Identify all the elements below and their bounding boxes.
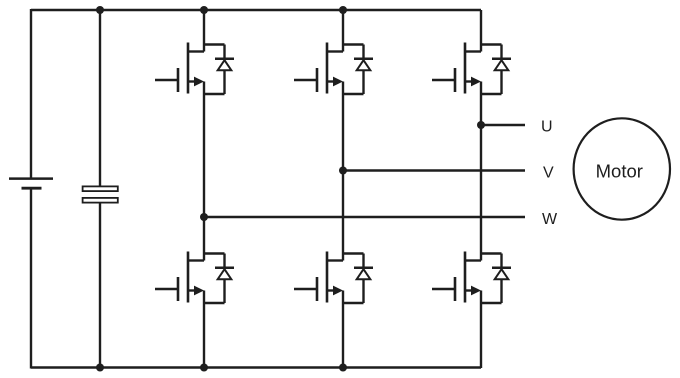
- diode D6 (freewheeling): [481, 254, 511, 304]
- diode D4 (freewheeling): [204, 254, 234, 304]
- wire: phase node W to lower drain: [203, 217, 205, 261]
- wire: phase V output: [343, 169, 525, 171]
- diode D5 (freewheeling): [343, 254, 373, 304]
- wire: leg 2 upper source to phase node V: [342, 94, 344, 171]
- motor M1: [574, 118, 670, 219]
- transistor Q4 (N-MOSFET): [155, 252, 204, 304]
- transistor Q2 (N-MOSFET): [294, 43, 343, 95]
- junction: capacitor / top rail: [96, 6, 104, 14]
- junction: leg 2 / top rail: [339, 6, 347, 14]
- diode D3 (freewheeling): [481, 45, 511, 95]
- transistor Q5 (N-MOSFET): [294, 252, 343, 304]
- junction: phase node V: [339, 167, 347, 175]
- svg-text:U: U: [541, 119, 553, 136]
- junction: leg 1 / top rail: [200, 6, 208, 14]
- diode D1 (freewheeling): [204, 45, 234, 95]
- junction: capacitor / bottom rail: [96, 364, 104, 372]
- wire: phase U output: [481, 124, 525, 126]
- wire: leg 2 lower source to bottom rail: [342, 303, 344, 368]
- transistor Q6 (N-MOSFET): [432, 252, 481, 304]
- svg-text:V: V: [543, 164, 554, 181]
- transistor Q1 (N-MOSFET): [155, 43, 204, 95]
- diode D2 (freewheeling): [343, 45, 373, 95]
- label U: [541, 119, 553, 136]
- junction: phase node W: [200, 213, 208, 221]
- wire: leg 2 drain (upper): [342, 10, 344, 52]
- wire: phase node V to lower drain: [342, 171, 344, 261]
- junction: leg 1 / bottom rail: [200, 364, 208, 372]
- wire: leg 1 upper source to phase node W: [203, 94, 205, 217]
- wire top rail (DC+ bus): [31, 9, 481, 11]
- svg-text:W: W: [542, 211, 558, 228]
- wire: leg 1 lower source to bottom rail: [203, 303, 205, 368]
- svg-text:Motor: Motor: [596, 161, 643, 182]
- battery B1: [9, 9, 53, 369]
- wire: phase node U to lower drain: [480, 125, 482, 261]
- wire: leg 3 lower source to bottom rail: [480, 303, 482, 368]
- capacitor C1: [83, 10, 118, 369]
- wire: leg 1 drain (upper): [203, 10, 205, 52]
- transistor Q3 (N-MOSFET): [432, 43, 481, 95]
- label W: [542, 211, 558, 228]
- wire: leg 3 upper source to phase node U: [480, 94, 482, 125]
- label V: [543, 164, 554, 181]
- junction: phase node U: [477, 121, 485, 129]
- wire bottom rail (DC- bus): [31, 366, 481, 368]
- junction: leg 2 / bottom rail: [339, 364, 347, 372]
- wire: leg 3 drain (upper): [480, 10, 482, 52]
- wire: phase W output: [204, 216, 525, 218]
